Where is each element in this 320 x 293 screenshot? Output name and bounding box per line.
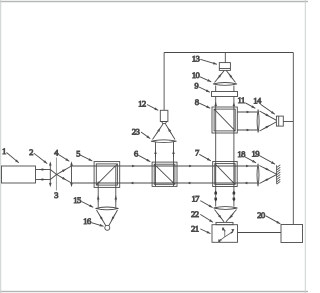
pinhole 3 (55, 158, 57, 191)
wire: main bottom beam lens 4 to lens 18 (72, 182, 258, 184)
wire: box21 to box20 (238, 232, 282, 234)
wire: laser output beams (36, 170, 51, 180)
svg-text:23: 23 (132, 126, 140, 136)
svg-text:17: 17 (191, 194, 200, 204)
label 18 (237, 149, 256, 163)
beamsplitter cube 7 (213, 162, 238, 187)
wire: beam arrows cube6 to cube7 (187, 166, 194, 183)
lens 4 (70, 161, 73, 187)
label 13 (192, 54, 217, 65)
detector 13 (219, 63, 230, 71)
svg-text:5: 5 (76, 148, 80, 158)
detector 12 (160, 110, 168, 123)
label 14 (253, 95, 275, 114)
svg-text:3: 3 (54, 190, 58, 200)
stage box 21 (212, 225, 238, 243)
label 9 (194, 81, 209, 93)
waveplate 9 (212, 92, 238, 97)
label 8 (195, 97, 210, 108)
wire: crossing rays between lens 2 and lens 4 (50, 166, 71, 183)
wire: converging rays to stage plate (215, 210, 237, 222)
label 17 (191, 194, 212, 208)
wire: beam arrows cube8 to plate9 (216, 102, 234, 107)
wire: converging rays to pinhole 16 (97, 210, 118, 226)
wire: converging rays to mirror 19 (259, 166, 276, 184)
lens 2 (49, 161, 52, 187)
controller box 20 (281, 225, 303, 243)
svg-text:19: 19 (252, 148, 260, 158)
svg-text:9: 9 (194, 81, 198, 91)
wire: detector14 to right bus (283, 121, 293, 123)
svg-text:16: 16 (83, 216, 92, 226)
svg-text:18: 18 (237, 149, 246, 159)
svg-text:z: z (222, 226, 224, 231)
wire: beams cube8 to lens11 (237, 112, 257, 130)
label 2 (29, 147, 47, 164)
lens 15 (96, 207, 119, 210)
axes inside box 21 (218, 226, 235, 243)
svg-text:2: 2 (29, 147, 33, 157)
lens 23 (151, 140, 177, 143)
wire: top bus (164, 52, 293, 54)
svg-text:4: 4 (54, 148, 59, 158)
svg-text:y: y (232, 227, 235, 232)
laser 1 (2, 166, 36, 183)
label 21 (191, 224, 210, 234)
mirror 19 (277, 165, 281, 184)
beamsplitter cube 5 (94, 162, 120, 188)
svg-text:7: 7 (195, 147, 200, 157)
svg-text:20: 20 (257, 210, 266, 220)
svg-text:6: 6 (134, 148, 139, 158)
label 22 (191, 209, 213, 223)
label 10 (192, 70, 211, 82)
svg-text:10: 10 (192, 70, 201, 80)
label 4 (54, 148, 69, 162)
svg-text:22: 22 (191, 209, 199, 219)
label 23 (132, 126, 150, 138)
wire: main top beam lens 4 to lens 18 (72, 165, 258, 167)
label 6 (134, 148, 150, 161)
label 5 (76, 148, 92, 161)
label 11 (238, 95, 256, 109)
wire: converging rays to detector 12 (153, 124, 176, 140)
svg-text:1: 1 (2, 146, 6, 156)
label 1 (2, 146, 19, 163)
wire: beam double-arrows cube7 to lens17 (214, 190, 235, 202)
svg-text:15: 15 (73, 195, 81, 205)
lens 17 (214, 207, 238, 210)
wire: detector13 to top bus (224, 53, 226, 63)
wire: converging rays to detector 14 (260, 111, 277, 131)
svg-text:8: 8 (195, 97, 200, 107)
svg-text:14: 14 (253, 95, 262, 105)
wire: beams below cube5 (98, 167, 116, 208)
svg-text:13: 13 (192, 54, 200, 64)
label 20 (257, 210, 280, 224)
label 7 (195, 147, 211, 160)
wire: beams plate9 to lens10 (216, 86, 234, 92)
lens 18 (257, 164, 259, 187)
svg-text:12: 12 (138, 99, 146, 109)
wire: detector12 to top bus (163, 53, 165, 111)
lens 10 (213, 83, 237, 86)
wire: beam arrows cube7 to lens18 (244, 166, 251, 183)
label 19 (252, 148, 275, 164)
lens 11 (257, 110, 259, 133)
beamsplitter cube 6 (152, 162, 177, 186)
wire: beam arrows cube5 to cube6 (130, 166, 137, 183)
beamsplitter cube 8 (212, 107, 237, 133)
pinhole 16 (105, 225, 110, 230)
wire: converging rays to detector 13 (215, 71, 236, 83)
stage plate 22 (216, 222, 233, 224)
wire: right bus (292, 53, 294, 225)
label 16 (83, 216, 103, 226)
svg-text:11: 11 (238, 95, 245, 105)
label 12 (138, 99, 158, 111)
wire: beams above cube6 (156, 142, 174, 186)
svg-text:21: 21 (191, 224, 199, 234)
detector 14 (276, 116, 283, 126)
label 15 (73, 195, 93, 207)
wire: vertical beams plate9 through cube8 and cube7 to lens17 (216, 97, 234, 207)
